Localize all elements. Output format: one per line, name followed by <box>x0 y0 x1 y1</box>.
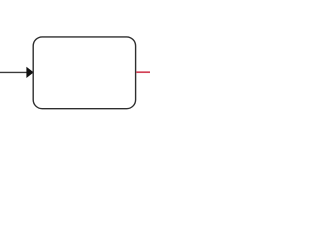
wire: red output line <box>136 71 150 73</box>
arrowhead on input wire <box>27 68 33 78</box>
node: rounded state box <box>33 37 135 109</box>
wire: input arrow shaft <box>0 71 28 73</box>
